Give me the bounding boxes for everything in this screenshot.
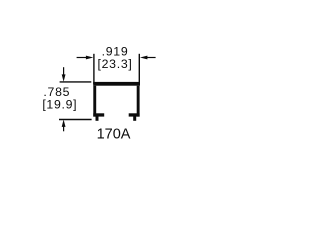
left bottom tab xyxy=(96,117,99,121)
right extension line of .919 / right edge of top bar xyxy=(138,54,140,84)
right arrow of .919 xyxy=(140,56,156,60)
left foot flange xyxy=(93,113,104,116)
svg-text:170A: 170A xyxy=(97,126,131,142)
svg-text:[19.9]: [19.9] xyxy=(42,98,77,112)
right leg of channel xyxy=(137,86,140,117)
bottom extension line of .785 xyxy=(59,119,92,121)
top extension line of .785 xyxy=(60,81,92,83)
right foot flange xyxy=(129,113,140,116)
right bottom tab xyxy=(133,117,136,121)
left arrow of .919 xyxy=(77,56,94,60)
left extension line of .919 / left edge of top bar xyxy=(93,54,95,84)
top arrow of .785 (pointing down) xyxy=(62,67,66,82)
svg-text:[23.3]: [23.3] xyxy=(98,57,133,71)
bottom arrow of .785 (pointing up) xyxy=(62,120,66,132)
left leg of channel xyxy=(93,86,96,117)
thick bottom wall of top bar xyxy=(93,82,140,86)
